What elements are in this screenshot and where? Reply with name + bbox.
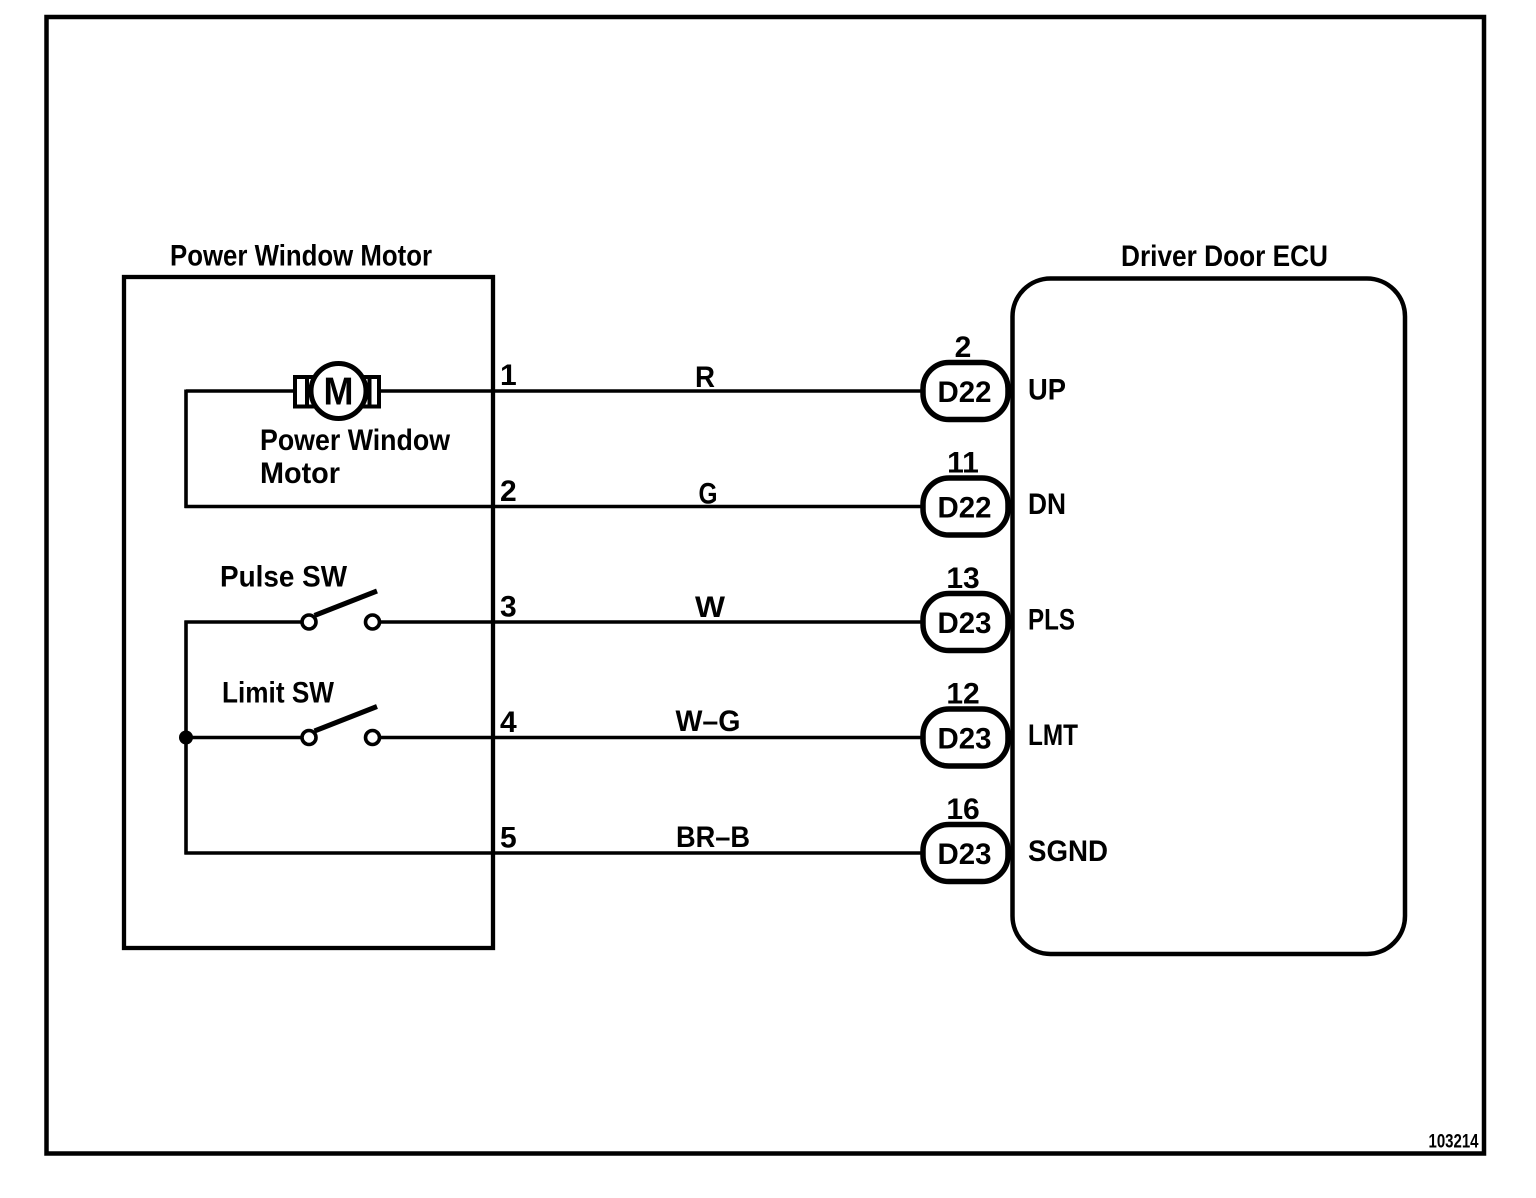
connector D23 pin 16 oval xyxy=(923,825,1008,882)
svg-text:2: 2 xyxy=(500,475,517,508)
svg-text:D22: D22 xyxy=(938,376,992,409)
wire 4: limit switch to connector D23 pin 12 (y=737.5) xyxy=(381,736,923,739)
wire 5: switch common to connector D23 pin 16 (y=853) xyxy=(185,851,924,854)
junction dot on switch common xyxy=(179,731,193,745)
wire 3 left segment (y=622) xyxy=(185,620,301,623)
connector D22 pin 11 oval xyxy=(923,478,1008,535)
wire: left vertical switch common xyxy=(184,621,188,855)
svg-text:4: 4 xyxy=(500,706,517,739)
svg-text:Driver Door ECU: Driver Door ECU xyxy=(1121,240,1328,273)
svg-text:D23: D23 xyxy=(938,723,992,756)
limit switch: blade xyxy=(315,707,378,732)
svg-text:D22: D22 xyxy=(938,492,992,525)
svg-text:12: 12 xyxy=(946,678,979,711)
motor M symbol: right brush bar xyxy=(368,377,372,407)
wire 1: motor to connector D22 pin 2 (y=391) xyxy=(381,389,923,392)
motor M symbol: housing rect xyxy=(295,377,379,407)
svg-text:R: R xyxy=(695,361,715,394)
svg-text:5: 5 xyxy=(500,822,517,855)
pulse switch: right contact circle xyxy=(366,615,380,629)
svg-text:Motor: Motor xyxy=(260,457,340,490)
svg-text:PLS: PLS xyxy=(1028,604,1075,637)
limit switch: right contact circle xyxy=(366,731,380,745)
connector D22 pin 2 oval xyxy=(923,363,1008,420)
svg-text:Limit SW: Limit SW xyxy=(222,677,335,710)
svg-text:16: 16 xyxy=(946,793,979,826)
wire: left vertical motor return xyxy=(184,390,188,509)
svg-text:Power Window: Power Window xyxy=(260,424,451,457)
svg-text:11: 11 xyxy=(947,447,979,480)
pulse switch: left contact circle xyxy=(302,615,316,629)
svg-text:D23: D23 xyxy=(938,838,992,871)
pulse switch: blade xyxy=(315,591,378,616)
svg-text:UP: UP xyxy=(1028,374,1066,407)
svg-text:SGND: SGND xyxy=(1028,835,1108,868)
svg-text:LMT: LMT xyxy=(1028,719,1078,752)
svg-text:2: 2 xyxy=(955,331,972,364)
svg-text:103214: 103214 xyxy=(1429,1132,1479,1153)
connector D23 pin 12 oval xyxy=(923,709,1008,766)
component box: Power Window Motor xyxy=(124,277,493,948)
svg-text:13: 13 xyxy=(946,562,979,595)
svg-text:3: 3 xyxy=(500,591,517,624)
wire 2: motor return to connector D22 pin 11 (y=506.5) xyxy=(185,505,924,508)
connector D23 pin 13 oval xyxy=(923,594,1008,651)
svg-text:D23: D23 xyxy=(938,607,992,640)
wire 4 left segment (y=737.5) xyxy=(185,736,301,739)
svg-text:W: W xyxy=(695,591,726,624)
svg-text:M: M xyxy=(324,371,354,414)
svg-text:BR–B: BR–B xyxy=(676,821,750,854)
wire: motor left lead (y=391) xyxy=(186,389,295,392)
svg-text:DN: DN xyxy=(1028,488,1066,521)
motor M symbol: circle xyxy=(311,364,366,419)
ECU box: Driver Door ECU xyxy=(1013,279,1406,955)
svg-text:Power Window Motor: Power Window Motor xyxy=(170,240,432,273)
svg-text:G: G xyxy=(699,478,718,511)
svg-text:Pulse SW: Pulse SW xyxy=(220,561,348,594)
limit switch: left contact circle xyxy=(302,731,316,745)
svg-text:1: 1 xyxy=(500,359,517,392)
wire 3: pulse switch to connector D23 pin 13 (y=622) xyxy=(381,620,923,623)
svg-text:W–G: W–G xyxy=(676,705,741,738)
motor M symbol: left brush bar xyxy=(305,377,309,407)
